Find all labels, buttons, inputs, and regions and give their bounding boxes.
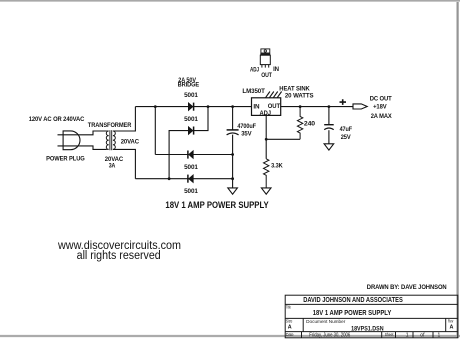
junction diode D3 to ground bus [231,153,234,156]
svg-text:5001: 5001 [184,116,198,123]
svg-text:Document Number: Document Number [306,319,346,324]
svg-text:47uF: 47uF [340,126,353,133]
svg-text:5001: 5001 [184,92,198,99]
svg-text:LM350T: LM350T [242,88,265,95]
svg-text:2A MAX: 2A MAX [371,113,393,120]
ground under 47uF [324,144,334,150]
capacitor C1 4700uF [227,130,239,135]
svg-text:Title: Title [286,304,291,309]
wire top rail [135,106,252,108]
wire ground bus [232,107,234,188]
svg-text:A: A [288,325,292,331]
wire secondary top to top rail [113,107,135,131]
svg-text:5001: 5001 [184,188,198,195]
junction capacitor C1 to top rail [231,105,234,108]
svg-text:all rights reserved: all rights reserved [77,250,161,262]
regulator U1 LM350T [252,98,281,116]
ground under 3.3K [261,188,271,194]
svg-text:OUT: OUT [268,103,281,110]
output connector J1 [353,104,367,109]
junction diode D2 cathode to top rail [207,105,210,108]
svg-text:A: A [450,325,454,331]
wire diode D3 row [155,154,232,156]
transformer T1 [106,130,115,150]
junction node B on bottom rail [168,177,171,180]
svg-text:20 WATTS: 20 WATTS [285,93,314,100]
wire plug to transformer bottom [80,146,107,150]
svg-text:35V: 35V [241,131,252,138]
svg-text:3A: 3A [109,162,116,169]
TO-220 package [260,49,270,68]
diode D1 5001 [188,103,193,111]
junction bottom rail to ground bus [231,177,234,180]
svg-text:Size: Size [286,319,293,324]
wire plug to transformer top [80,131,107,135]
svg-text:120V AC OR 240VAC: 120V AC OR 240VAC [29,116,85,123]
power plug P1 [58,131,81,150]
wire R1 bottom to ADJ node [266,138,300,140]
diode D3 5001 [188,151,193,159]
junction resistor R1 to output rail [299,105,302,108]
svg-text:IN: IN [273,66,279,73]
wire regulator output [280,106,353,108]
plus polarity marker [340,99,347,105]
wire diode D2 row [169,107,208,179]
heat sink hatch [266,92,282,98]
wire secondary bottom to bottom rail [113,149,135,178]
svg-text:18VPS1.DSN: 18VPS1.DSN [351,327,384,333]
svg-text:1: 1 [438,332,441,338]
svg-text:POWER PLUG: POWER PLUG [46,155,85,162]
svg-text:BRIDGE: BRIDGE [178,82,200,89]
svg-text:20VAC: 20VAC [121,138,140,145]
wire bottom rail [135,178,232,180]
svg-text:Sheet: Sheet [385,332,394,337]
ground under bus [228,188,238,194]
svg-text:240: 240 [304,121,316,128]
svg-text:of: of [420,332,425,338]
svg-text:ADJ: ADJ [260,110,271,117]
svg-text:ADJ: ADJ [250,67,259,74]
svg-text:Friday, June 30, 2006: Friday, June 30, 2006 [309,332,350,338]
svg-text:DRAWN BY: DAVE JOHNSON: DRAWN BY: DAVE JOHNSON [367,284,447,291]
diode D2 5001 [188,127,193,135]
diode D4 5001 [188,175,193,183]
svg-text:DAVID JOHNSON AND ASSOCIATES: DAVID JOHNSON AND ASSOCIATES [303,295,403,304]
svg-text:4700uF: 4700uF [237,123,256,130]
svg-text:5001: 5001 [184,164,198,171]
svg-text:Date: Date [286,332,294,337]
svg-text:18V 1 AMP POWER SUPPLY: 18V 1 AMP POWER SUPPLY [165,200,268,210]
svg-text:TRANSFORMER: TRANSFORMER [88,122,132,129]
svg-text:3.3K: 3.3K [271,163,283,170]
junction node A on top rail [154,105,157,108]
svg-text:DC OUT: DC OUT [370,95,392,102]
svg-text:1: 1 [406,332,409,338]
resistor R1 240 [297,107,302,140]
svg-text:Rev: Rev [448,319,454,324]
wire node A riser to diode D3 row [154,107,156,155]
capacitor C2 47uF [324,107,334,144]
wire ADJ pin to R2 top [265,115,267,158]
svg-text:18V 1 AMP POWER SUPPLY: 18V 1 AMP POWER SUPPLY [313,308,392,317]
junction capacitor C2 to output rail [328,105,331,108]
junction ADJ node [265,138,268,141]
svg-text:OUT: OUT [261,72,272,79]
svg-text:+18V: +18V [373,104,387,111]
title block frame [285,295,458,338]
svg-text:25V: 25V [341,134,352,141]
resistor R2 3.3K [264,159,269,188]
